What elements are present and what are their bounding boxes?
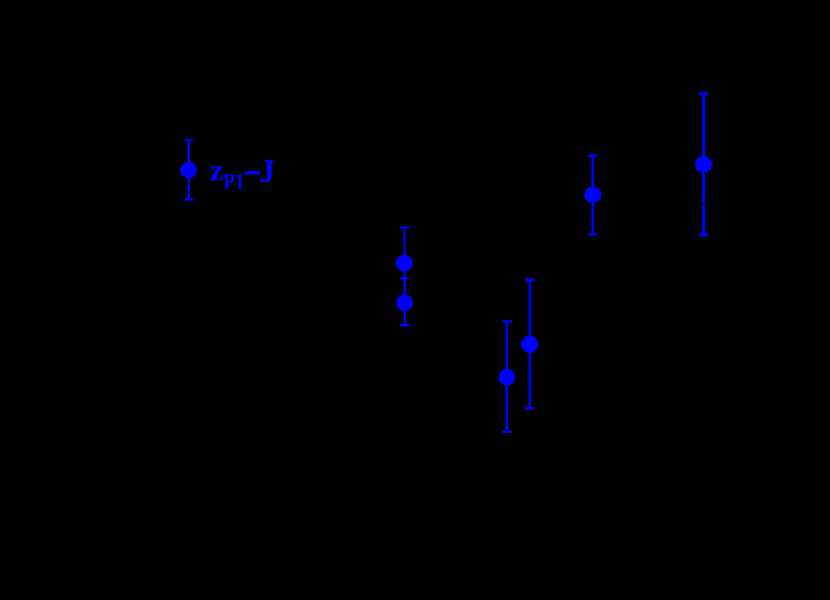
data point 7 marker [695,156,712,173]
data point 1 marker [180,162,197,179]
line pinch detail on point 7 bar [701,203,705,206]
data point 5 error bar [525,280,535,408]
data point 3 error bar [400,278,410,325]
data point 2 marker [396,255,413,272]
data point 4 error bar [502,321,512,431]
svg-text:z: z [210,152,224,188]
data point 2 error bar [400,227,410,278]
data point 6 marker [585,186,602,203]
svg-text:P1: P1 [223,169,244,194]
data point 3 marker [396,294,413,311]
series label z_P1 - J [210,152,275,194]
data point 5 marker [521,336,538,353]
data point 1 error bar [184,140,193,199]
data point 4 marker [499,369,516,386]
svg-text:J: J [260,153,275,190]
data point 6 error bar [588,156,598,235]
data point 7 error bar [699,93,708,235]
